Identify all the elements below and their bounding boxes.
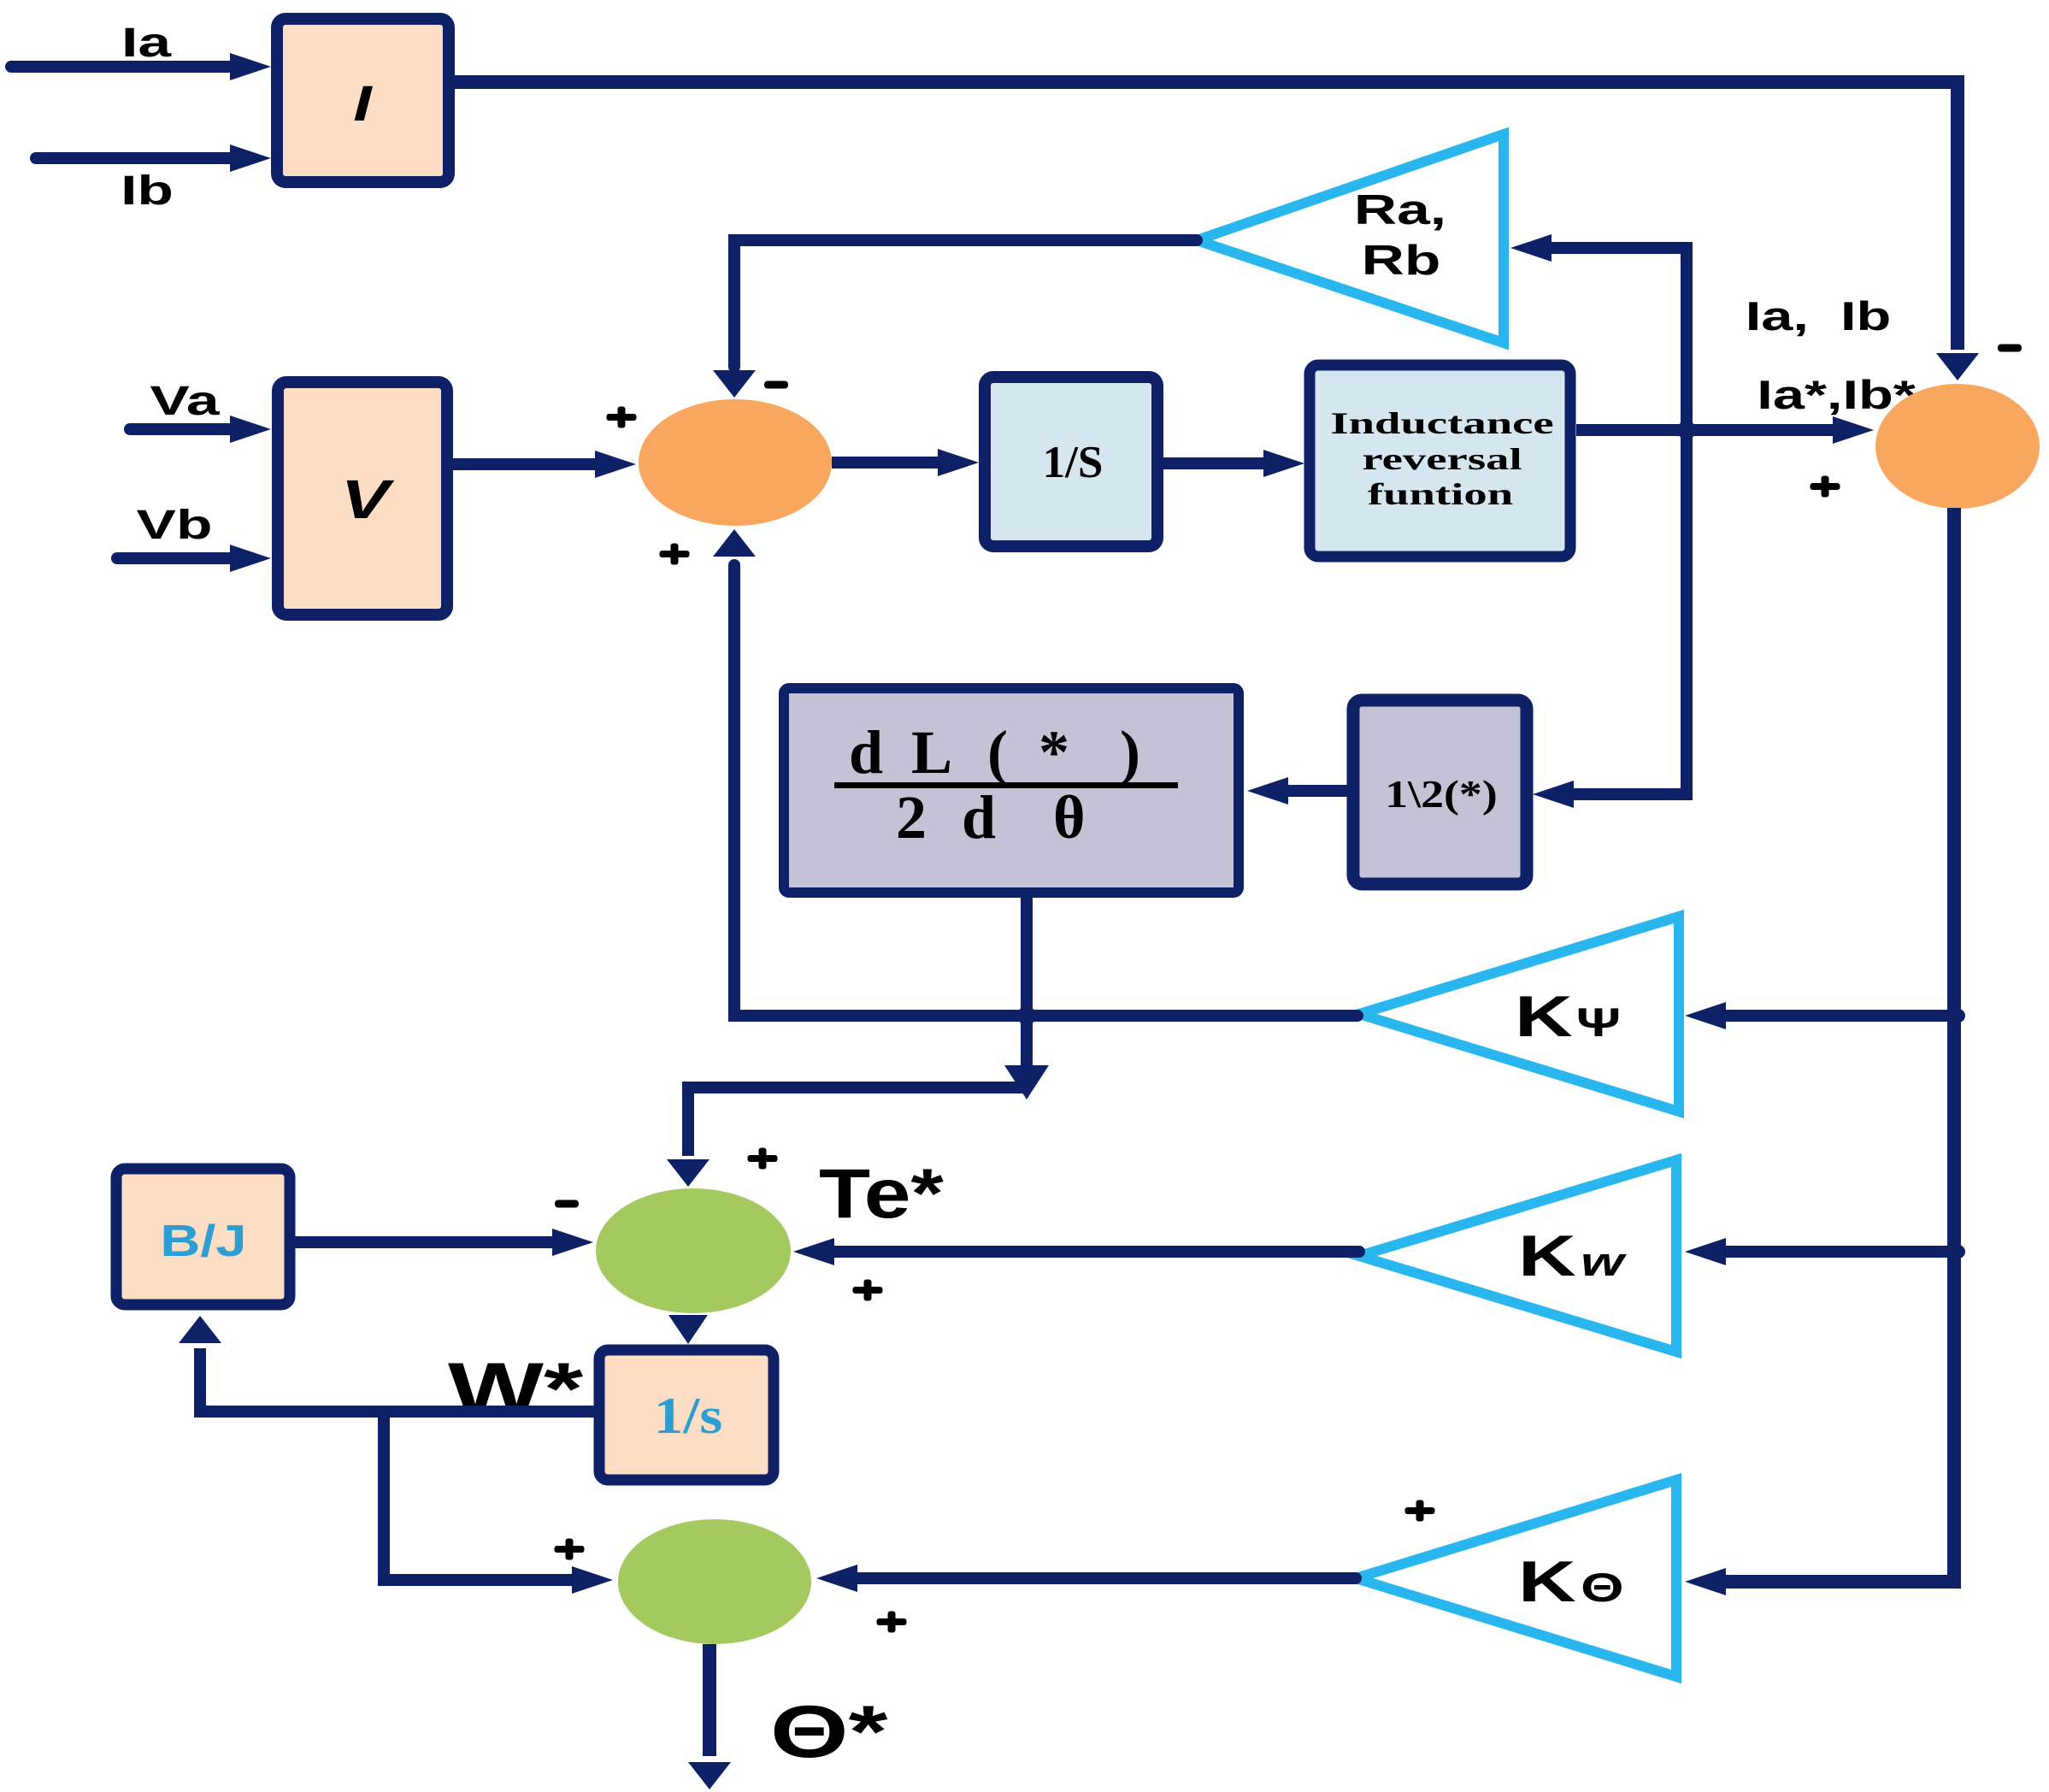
svg-text:B/J: B/J [160, 1217, 246, 1265]
wire 1/s output left and up to B/J [179, 1316, 596, 1412]
svg-text:(: ( [987, 718, 1008, 787]
block Inductance reversal funtion [1310, 365, 1570, 557]
wire S3 down into 1/s [668, 1315, 708, 1344]
svg-text:Ra,: Ra, [1354, 186, 1446, 233]
svg-text:Ia*,Ib*: Ia*,Ib* [1757, 373, 1916, 417]
wire Ia input [11, 53, 271, 80]
wire S4 output down [688, 1644, 731, 1789]
wire Kw output to S3 [793, 1238, 1359, 1265]
wire 1-half output to dL block [1247, 777, 1347, 805]
svg-text:Inductance: Inductance [1330, 407, 1553, 441]
wire branch to Kw [1685, 1238, 1954, 1265]
summing junction S2 (orange right) [1875, 384, 2040, 509]
wire dL output down [1004, 898, 1049, 1099]
svg-text:d: d [849, 718, 883, 787]
sign plus S4 right [877, 1612, 907, 1633]
node dot trunk-Kpsi [1952, 1009, 1965, 1023]
block I [277, 19, 449, 182]
svg-text:): ) [1120, 718, 1140, 787]
block V [278, 382, 447, 615]
svg-text:1/S: 1/S [1043, 438, 1104, 487]
wire I output to right summing junction S2 [455, 82, 1979, 380]
sign plus S3 top [748, 1148, 778, 1170]
svg-text:K: K [1518, 1549, 1576, 1614]
svg-text:Vb: Vb [137, 502, 213, 548]
sign plus S3 right [853, 1280, 883, 1301]
wire branch to Kpsi [1685, 1002, 1954, 1029]
node junction dot dL crossing [1017, 1006, 1036, 1025]
svg-text:K: K [1515, 984, 1573, 1049]
wire V output to summing junction S1 [453, 451, 636, 478]
svg-text:I: I [353, 76, 374, 132]
node junction dot at Inductance output [1677, 421, 1696, 439]
wire trunk from S2 down to Ktheta [1685, 508, 1954, 1595]
svg-text:Ib: Ib [121, 168, 174, 214]
block B/J [116, 1169, 290, 1305]
sign plus above Ktheta tip [1405, 1500, 1435, 1522]
wire B/J output to S3 [295, 1229, 593, 1256]
sign plus S4 left [555, 1539, 585, 1560]
svg-text:V: V [341, 469, 395, 529]
svg-text:2: 2 [896, 783, 927, 852]
sign minus S2 [1998, 345, 2022, 352]
wire Inductance output to summing junction S2 [1576, 416, 1874, 444]
block 1-half(*) [1353, 700, 1527, 884]
svg-text:Rb: Rb [1362, 237, 1441, 284]
svg-text:Ψ: Ψ [1576, 1001, 1621, 1046]
sign minus S3 left [555, 1200, 579, 1208]
svg-text:funtion: funtion [1368, 478, 1514, 512]
wire Ra,Rb output to S1 top [713, 240, 1197, 398]
gain Ktheta (triangle) [1356, 1480, 1676, 1677]
wire branch down to S4 [384, 1412, 613, 1594]
wire Vb input [117, 545, 271, 572]
wire elbow into Te* summing junction S3 [667, 1088, 1027, 1187]
svg-text:Θ*: Θ* [770, 1690, 888, 1772]
svg-text:reversal: reversal [1362, 443, 1522, 477]
svg-text:Ia: Ia [121, 20, 172, 66]
svg-text:L: L [911, 718, 952, 787]
gain Kpsi (triangle) [1359, 917, 1679, 1111]
svg-text:Θ: Θ [1581, 1566, 1623, 1611]
block 1/S integrator [985, 377, 1157, 546]
wire S1 output to 1/S [832, 449, 979, 476]
wire Ktheta output to S4 [816, 1565, 1356, 1592]
summing junction S3 Te* (green) [596, 1188, 791, 1313]
svg-text:θ: θ [1053, 783, 1086, 852]
svg-text:Ia, Ib: Ia, Ib [1746, 294, 1892, 339]
sign minus S1 top [764, 381, 788, 389]
summing junction S4 (green bottom) [618, 1519, 811, 1644]
wire feedback up to Ra,Rb gain [1510, 234, 1687, 430]
svg-text:w: w [1581, 1241, 1628, 1285]
sign plus S2 [1811, 476, 1840, 498]
block dL/2dtheta [784, 688, 1239, 893]
node dot trunk-Kw [1952, 1245, 1965, 1259]
gain Ra,Rb (triangle) [1197, 134, 1504, 343]
wire Va input [130, 416, 271, 443]
svg-text:Va: Va [150, 378, 220, 424]
svg-text:1\2(*): 1\2(*) [1385, 772, 1497, 816]
sign plus S1 bottom [660, 544, 690, 565]
sign plus S1 left [607, 407, 637, 428]
wire Ib input [36, 144, 271, 172]
wire 1/S output to Inductance block [1163, 450, 1304, 477]
wire feedback down to 1-half block [1533, 430, 1687, 808]
block 1/s integrator [599, 1350, 774, 1480]
svg-text:d: d [962, 783, 996, 852]
gain Kw (triangle) [1359, 1160, 1676, 1352]
wire Kpsi output to S1 bottom [713, 529, 1357, 1016]
svg-text:1/s: 1/s [654, 1387, 723, 1444]
svg-text:K: K [1518, 1223, 1576, 1288]
summing junction S1 (orange) [639, 399, 832, 526]
svg-text:Te*: Te* [819, 1155, 945, 1233]
svg-text:*: * [1039, 718, 1069, 787]
